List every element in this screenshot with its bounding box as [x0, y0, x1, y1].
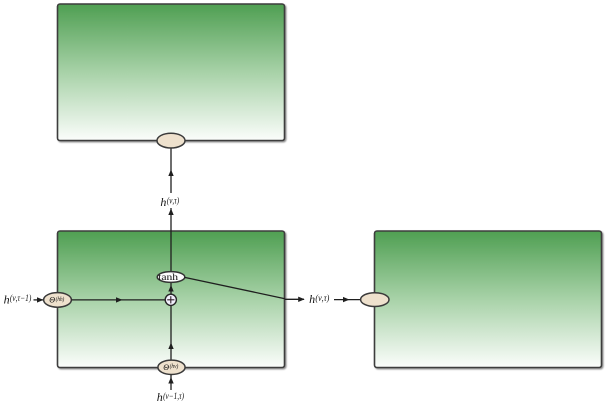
arrowhead into theta ellipse — [37, 297, 44, 302]
tanh ellipse — [157, 272, 185, 283]
wire plus to tanh — [170, 282, 172, 294]
arrowhead into bottom ellipse — [168, 377, 173, 384]
arrowhead mid wire right — [116, 297, 123, 302]
wire left label to theta ellipse — [34, 299, 44, 301]
node label h^(v,t) above middle box — [160, 195, 179, 209]
input ellipse on left border of right box — [361, 293, 389, 307]
arrowhead into top label — [168, 209, 173, 216]
wire bottom label to bottom ellipse — [170, 375, 172, 390]
label theta hh — [49, 296, 64, 305]
wire right label to right box ellipse — [334, 299, 361, 301]
wire theta hh to plus node — [71, 299, 165, 301]
svg-text:h: h — [157, 390, 163, 404]
layer box top (h^(v+1,t) layer) — [58, 4, 285, 141]
arrowhead mid wire up — [168, 170, 173, 177]
plus sign — [167, 299, 174, 301]
layer box right (next time step) — [375, 231, 602, 368]
output label h^(v,t) right — [309, 292, 329, 306]
diagonal wire tanh to right edge — [185, 277, 285, 298]
svg-text:(ν,τ): (ν,τ) — [167, 196, 179, 206]
arrowhead mid wire — [343, 297, 350, 302]
input ellipse on bottom border of top box — [157, 133, 185, 148]
arrowhead into tanh — [168, 285, 173, 292]
wire tanh up to top label — [170, 208, 172, 272]
svg-text:(ν,τ): (ν,τ) — [315, 293, 329, 303]
svg-text:Θ: Θ — [163, 363, 169, 372]
svg-text:(hh): (hh) — [56, 296, 65, 303]
bottom input label h^(v-1,t) — [157, 390, 184, 404]
svg-text:h: h — [309, 292, 315, 306]
svg-text:(ν−1,τ): (ν−1,τ) — [163, 391, 184, 401]
svg-text:h: h — [160, 195, 166, 209]
label theta hv — [163, 363, 178, 372]
svg-text:tanh: tanh — [158, 272, 179, 282]
arrowhead into right label — [298, 297, 305, 302]
svg-text:h: h — [4, 292, 10, 306]
wire bottom ellipse to plus — [170, 306, 172, 361]
wire exit to right arrow — [285, 298, 304, 300]
left input label h^(v,t-1) — [4, 292, 32, 306]
layer box middle (current cell) — [58, 231, 285, 368]
weight ellipse theta hv on bottom border of middle box — [158, 360, 185, 374]
svg-text:Θ: Θ — [49, 296, 55, 305]
svg-text:(hv): (hv) — [170, 363, 179, 370]
svg-text:(ν,τ−1): (ν,τ−1) — [10, 293, 31, 303]
arrowhead mid wire up bottom — [168, 343, 173, 350]
weight ellipse theta hh on left border of middle box — [44, 293, 72, 308]
wire top label up to top box ellipse — [170, 148, 172, 193]
plus node — [165, 294, 176, 305]
